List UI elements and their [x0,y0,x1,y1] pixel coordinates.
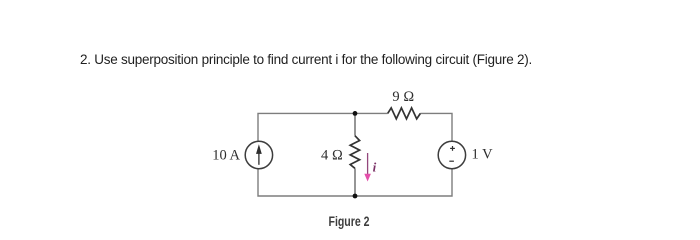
current arrow i (magenta) [364,153,371,182]
current source I1 arrow [257,146,261,165]
svg-text:i: i [373,159,377,174]
svg-text:10 A: 10 A [212,147,240,163]
svg-text:Figure 2: Figure 2 [329,214,370,229]
node B junction dot bottom [353,194,358,199]
wire middle branch top [354,113,356,135]
wire top-right segment [420,113,452,141]
resistor R1 4ohm vertical zigzag [350,136,359,169]
svg-text:4 Ω: 4 Ω [321,147,343,163]
current source I1 10A circle [245,141,272,168]
voltage source V1 minus sign [449,160,454,162]
wire top-left segment [258,113,388,141]
voltage source V1 plus sign [450,146,455,151]
svg-text:9 Ω: 9 Ω [392,89,414,105]
wire bottom rail [258,169,452,196]
problem statement text [80,52,532,67]
wire middle branch bottom [354,168,356,196]
resistor R2 9ohm horizontal zigzag [388,108,421,119]
voltage source V1 1V circle [438,141,465,168]
svg-text:1 V: 1 V [472,147,494,163]
node A junction dot top [353,111,358,116]
